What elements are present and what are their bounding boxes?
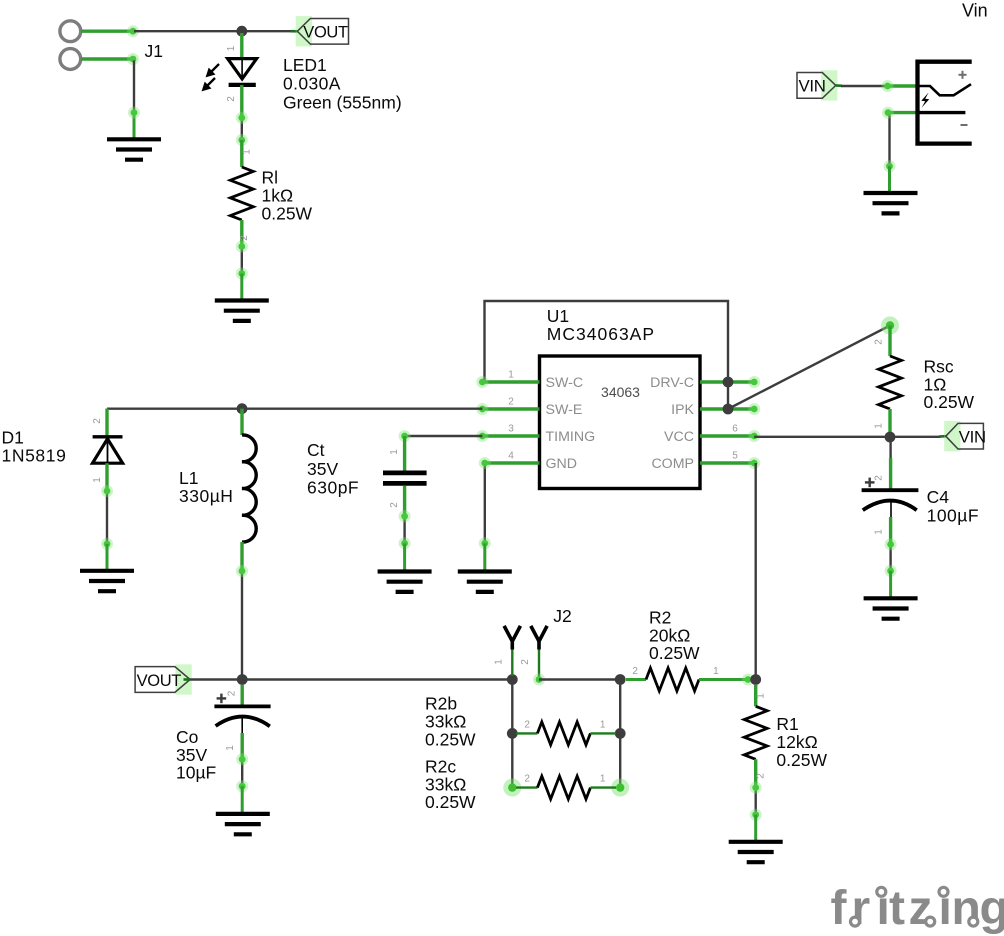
wire green stub to ground (Co) [241,786,244,814]
wire left divider vertical [511,680,513,788]
wire COMP to R1 node [755,463,757,680]
svg-text:2: 2 [524,720,530,731]
junction node DRV-C [723,377,734,388]
C4 plus sign [865,478,875,488]
ground (Vin jack) [864,193,918,213]
U1 pin labels [546,375,695,472]
wire green stub to ground (C4) [889,571,892,598]
svg-text:J1: J1 [145,41,163,61]
ground (Ct) [378,572,432,592]
svg-text:2: 2 [632,666,638,677]
power jack minus sign [961,124,968,126]
svg-text:6: 6 [732,424,738,435]
ground (U1 GND) [458,572,512,592]
resistor R2c [503,776,629,799]
svg-text:2: 2 [508,397,514,408]
junction node IPK [723,404,734,415]
wire pin2 green stub [133,113,136,140]
svg-text:2: 2 [226,96,237,102]
net label VOUT (bottom) [176,664,192,694]
svg-text:1: 1 [874,423,885,429]
wire right divider vertical [619,680,621,788]
wire J1 pin2 to ground [133,61,135,114]
resistor R2b [516,722,616,745]
resistor Rsc [879,317,902,435]
wire stub dark green at VIN label (right) [939,435,946,438]
junction node R2 left [615,674,626,685]
ground (J1) [107,139,161,159]
junction node Co top [237,674,248,685]
svg-text:Vin: Vin [962,1,988,21]
pin SW-C (1) [482,380,539,384]
svg-text:2: 2 [227,690,238,696]
svg-text:1: 1 [389,449,400,455]
svg-text:Ct: Ct [307,440,325,460]
Co plus sign [217,694,227,704]
pin IPK [700,407,754,411]
svg-text:1: 1 [242,149,253,155]
wire L1 to VOUT node [241,571,243,680]
svg-text:TIMING: TIMING [546,429,596,445]
svg-text:5: 5 [732,451,738,462]
junction node VCC/Rsc/C4 [885,432,896,443]
svg-text:0.030A: 0.030A [283,74,341,94]
svg-text:f: f [831,882,848,935]
wire top loop SW-C to IPK [485,301,729,412]
wire VCC net [754,436,940,438]
wire green stub to ground [240,274,243,301]
svg-text:2: 2 [239,235,250,241]
ground (C4) [864,598,918,618]
connector J2 [504,626,547,686]
wire green stub to ground (jack) [888,166,891,193]
svg-text:MC34063AP: MC34063AP [547,324,655,344]
wire Co to ground [241,759,243,786]
wire jack sleeve to ground [888,113,890,167]
junction node R2b right [615,728,626,739]
svg-text:3: 3 [508,424,514,435]
svg-text:1: 1 [494,659,505,665]
svg-text:GND: GND [546,456,578,472]
svg-text:LED1: LED1 [283,55,327,75]
wire green stub to ground (D1) [106,544,109,571]
svg-text:2: 2 [524,774,530,785]
junction node L1 top [237,403,248,414]
power jack plus sign [959,71,967,79]
svg-text:630pF: 630pF [307,478,359,498]
LED1 emission arrows [203,64,219,90]
svg-text:t: t [889,882,905,935]
wire D1 to ground [106,491,108,544]
svg-text:U1: U1 [547,306,569,326]
svg-text:L1: L1 [179,468,198,488]
net label VIN (right) [944,421,960,451]
svg-text:1: 1 [874,529,885,535]
power jack J3 body [918,62,972,144]
wire C4 to ground [889,544,891,571]
svg-text:SW-E: SW-E [546,402,583,418]
wire VIN to power jack [841,85,887,87]
capacitor C4 (polarized) [862,437,919,544]
diode D1 1N5819 [93,409,123,492]
svg-text:0.25W: 0.25W [649,643,700,663]
svg-text:4: 4 [508,451,514,462]
svg-text:J2: J2 [553,606,571,626]
svg-text:IPK: IPK [671,402,694,418]
wire stub dark green at VIN label [836,84,842,87]
junction node R1 top [750,674,761,685]
svg-text:100µF: 100µF [927,506,979,526]
inductor L1 [242,409,256,571]
svg-text:2: 2 [756,773,767,779]
net label VIN (top right) [821,70,837,100]
junction node R2b left [507,728,518,739]
svg-text:0.25W: 0.25W [262,203,313,223]
svg-text:1: 1 [600,720,606,731]
svg-text:1: 1 [508,370,514,381]
svg-text:2: 2 [520,659,531,665]
connector J1 [60,21,139,70]
net label VOUT (top) [296,16,312,46]
pin GND (4) [485,461,540,465]
svg-text:VOUT: VOUT [303,24,348,42]
pin SW-E (2) [482,407,539,411]
svg-text:34063: 34063 [601,384,640,400]
LED LED1 [228,33,257,118]
svg-text:1: 1 [226,45,237,51]
wire stub dark green at VOUT label [291,30,298,33]
wire VOUT net top [134,30,293,32]
svg-text:g: g [980,882,1004,935]
svg-text:0.25W: 0.25W [924,392,975,412]
wire GND pin to ground [484,463,486,544]
op-amp U1 MC34063AP body [540,356,701,489]
wire TIMING to Ct [405,435,483,437]
svg-text:VIN: VIN [799,77,826,96]
power jack J3 pins [886,84,918,87]
svg-text:n: n [952,882,981,935]
wire LED1 to Rl [241,118,243,140]
resistor Rl [230,140,253,247]
capacitor Co (polarized) [214,685,270,759]
svg-text:10µF: 10µF [176,763,216,783]
svg-text:0.25W: 0.25W [425,729,476,749]
ground (D1) [80,571,134,591]
svg-text:C4: C4 [927,487,950,507]
power jack lightning bolt [921,93,929,108]
svg-text:D1: D1 [2,428,24,448]
svg-text:2: 2 [874,475,885,481]
svg-text:1: 1 [756,693,767,699]
ground (Co) [216,814,270,834]
svg-text:1: 1 [92,477,103,483]
svg-text:1: 1 [713,666,719,677]
svg-text:2: 2 [874,339,885,345]
svg-text:1: 1 [600,774,606,785]
wire Ct to ground [403,516,405,543]
svg-text:COMP: COMP [651,456,694,472]
svg-text:DRV-C: DRV-C [650,375,694,391]
wire Rl to ground [241,247,243,275]
ground (Rl) [215,301,269,321]
svg-text:VIN: VIN [959,428,986,447]
svg-text:1N5819: 1N5819 [2,446,67,466]
resistor R2 [626,668,754,691]
svg-text:2: 2 [92,418,103,424]
wire R1 to ground [755,788,757,816]
wire green stub to ground (Ct) [403,543,406,571]
pin COMP (5) [700,461,756,465]
wire SW-E net [107,408,482,410]
fritzing watermark [831,882,1004,935]
wire J2 pin2 to R2 [539,678,620,680]
svg-text:0.25W: 0.25W [776,750,827,770]
junction node J2 pin1 [507,674,518,685]
junction node VOUT top [236,26,247,37]
capacitor Ct [383,436,427,516]
svg-text:0.25W: 0.25W [425,792,476,812]
wire green stub to ground (U1 GND) [483,543,486,571]
svg-text:1: 1 [225,745,236,751]
resistor R1 [744,685,767,788]
pin VCC (6) [700,434,754,438]
svg-text:VOUT: VOUT [137,672,182,690]
pin TIMING (3) [482,434,539,438]
svg-text:Green (555nm): Green (555nm) [283,92,402,112]
svg-text:2: 2 [389,502,400,508]
ground (R1) [729,842,783,862]
svg-text:330µH: 330µH [179,486,233,506]
wire VOUT net bottom [190,678,512,680]
pin DRV-C [700,380,754,384]
svg-text:35V: 35V [307,459,338,479]
svg-text:SW-C: SW-C [546,375,584,391]
wire green stub to ground (R1) [754,815,757,842]
svg-text:VCC: VCC [664,429,694,445]
wire stub dark green at VOUT label (bottom) [184,678,191,681]
wire IPK to Rsc diagonal [728,326,890,410]
